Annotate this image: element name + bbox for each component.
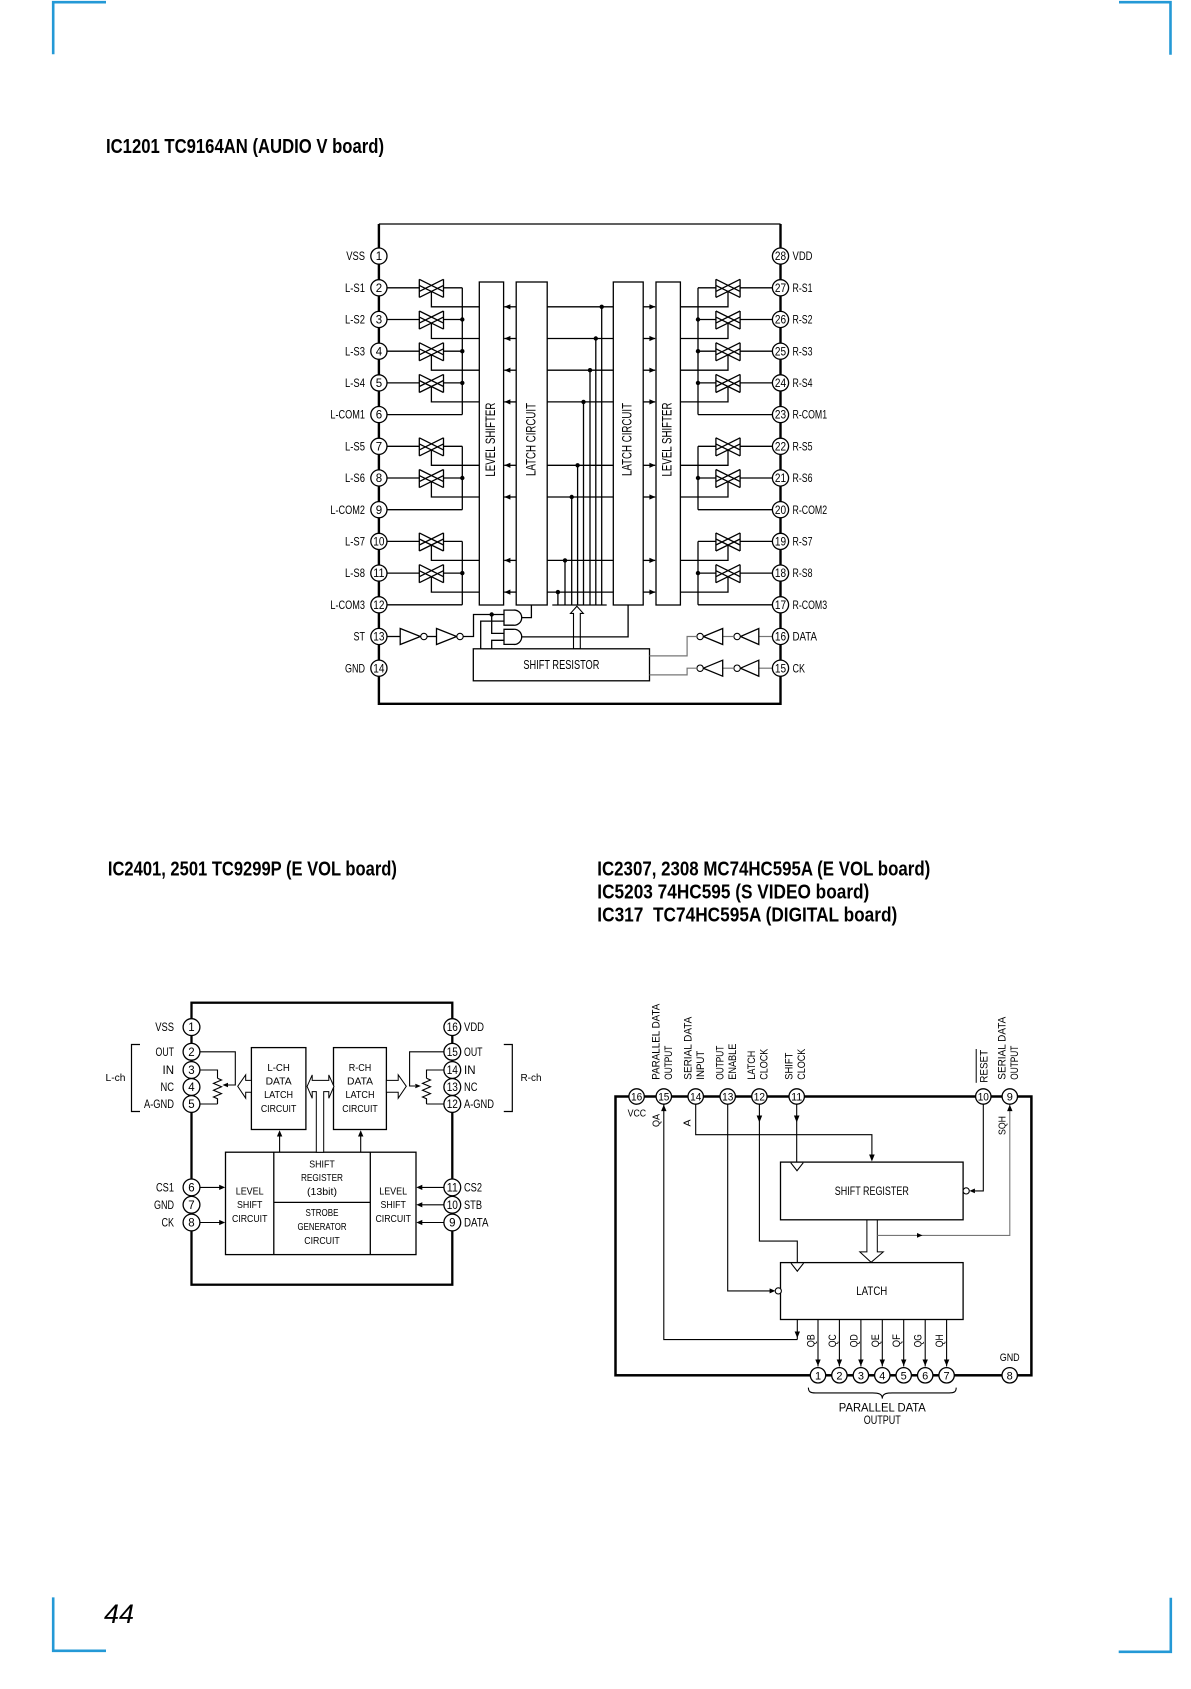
svg-text:NC: NC [161, 1080, 175, 1094]
svg-text:LATCH CIRCUIT: LATCH CIRCUIT [523, 403, 538, 476]
svg-text:ST: ST [354, 630, 366, 644]
inverter B [703, 629, 722, 645]
svg-text:GENERATOR: GENERATOR [298, 1221, 347, 1233]
wire switch L-S2 to common [444, 319, 463, 321]
arrow shift register to latch bus [571, 606, 584, 649]
wire bus vertical L-S8 [557, 592, 559, 605]
pin 7 L-S5 [345, 438, 387, 454]
svg-text:QH: QH [934, 1334, 946, 1347]
pin 16 VDD IC2401 [444, 1019, 484, 1036]
svg-text:R-COM2: R-COM2 [793, 503, 828, 517]
wire switch R-S3 to common [698, 350, 716, 352]
svg-text:8: 8 [1007, 1370, 1013, 1382]
svg-text:IC5203 74HC595 (S VIDEO board): IC5203 74HC595 (S VIDEO board) [597, 882, 869, 904]
svg-text:12: 12 [373, 600, 384, 612]
analog switch L-S1 [419, 279, 443, 297]
analog switch R-S6 [716, 470, 740, 488]
svg-text:15: 15 [447, 1047, 458, 1059]
wire bus vertical L-S3 [589, 370, 591, 605]
svg-text:19: 19 [775, 537, 786, 549]
svg-text:LATCH: LATCH [746, 1051, 758, 1080]
svg-text:LATCH CIRCUIT: LATCH CIRCUIT [620, 403, 635, 476]
wire QF output [903, 1320, 905, 1367]
L-CH data latch circuit box [251, 1048, 306, 1130]
inverter ST 1 [400, 629, 420, 645]
svg-text:R-S6: R-S6 [793, 471, 813, 485]
svg-text:6: 6 [188, 1183, 194, 1195]
junction dot ST branch [490, 612, 494, 616]
wire latch to level-shifter left row L-S5 [504, 464, 516, 466]
svg-text:R-COM1: R-COM1 [793, 408, 828, 422]
wiper arrow right pot [415, 1084, 421, 1089]
svg-text:14: 14 [373, 663, 385, 675]
pin 8 CK IC2401 [162, 1214, 200, 1231]
svg-text:28: 28 [775, 251, 786, 263]
wire pin3 IN to pot [200, 1070, 218, 1078]
svg-text:R-S4: R-S4 [793, 376, 813, 390]
analog switch R-S5 [716, 438, 740, 456]
wire latch row mid L-S6/R-S6 [547, 496, 613, 498]
wire pin2 OUT to wiper [200, 1052, 235, 1085]
wire pin10 L-S7 to switch [387, 540, 419, 542]
svg-text:26: 26 [775, 315, 786, 327]
svg-text:GND: GND [345, 661, 365, 675]
svg-text:VDD: VDD [464, 1020, 484, 1034]
wire pin10 reset [973, 1104, 984, 1191]
pin 2 OUT IC2401 [156, 1043, 200, 1060]
svg-text:44: 44 [104, 1599, 134, 1629]
svg-text:5: 5 [901, 1370, 907, 1382]
wire switch L-S4 to common [444, 382, 463, 384]
svg-text:QC: QC [827, 1334, 839, 1347]
svg-text:25: 25 [775, 346, 786, 358]
brace parallel data output [808, 1388, 956, 1399]
inverter A [741, 629, 759, 645]
svg-text:4: 4 [188, 1082, 195, 1094]
shift register box 74HC595 [781, 1162, 964, 1220]
svg-text:QE: QE [870, 1334, 882, 1347]
analog switch R-S8 [716, 565, 740, 583]
pin 22 R-S5 [772, 438, 812, 454]
wire R-S2 gate control [680, 323, 728, 338]
pin 1 VSS [346, 248, 387, 264]
pin 26 R-S2 [772, 311, 812, 327]
svg-text:10: 10 [447, 1200, 458, 1212]
wire QA to pin15 [796, 1320, 798, 1340]
svg-text:IC317 TC74HC595A (DIGITAL boa: IC317 TC74HC595A (DIGITAL board) [597, 905, 897, 927]
svg-text:L-S7: L-S7 [345, 535, 365, 549]
svg-text:CIRCUIT: CIRCUIT [375, 1213, 411, 1225]
wire R-S7 gate control [680, 545, 728, 560]
wire R-COM3 net [698, 604, 773, 606]
pin 12 A-GND IC2401 [444, 1096, 494, 1113]
wire R-S1 gate control [680, 291, 728, 306]
wire pin15 OUT to wiper [410, 1052, 444, 1086]
wire latch row mid L-S8/R-S8 [547, 591, 613, 593]
pin 12 L-COM3 [330, 597, 387, 613]
svg-text:OUT: OUT [464, 1045, 483, 1059]
shift resistor box [473, 649, 649, 681]
svg-text:24: 24 [775, 378, 787, 390]
svg-text:QB: QB [806, 1334, 818, 1347]
pin 7 74HC595 [939, 1368, 954, 1383]
pin 27 R-S1 [772, 280, 812, 296]
wire shift register to R-CH latch [360, 1137, 362, 1153]
bubble latch OE [775, 1288, 781, 1294]
R-CH data latch circuit box [334, 1048, 387, 1130]
pin 4 L-S3 [345, 343, 387, 359]
junction dot bus L-S5 [575, 463, 579, 467]
wire pin10 STB to level shift [422, 1204, 444, 1206]
wire QE output [881, 1320, 883, 1367]
wire pin22 R-S5 to switch [740, 445, 772, 447]
junction dot bus L-S3 [588, 368, 592, 372]
wire QD output [860, 1320, 862, 1367]
svg-text:L-COM1: L-COM1 [330, 408, 365, 422]
wire L-S3 gate control [431, 355, 479, 370]
pin 3 L-S2 [345, 311, 387, 327]
svg-text:27: 27 [775, 283, 786, 295]
clock triangle shift register [791, 1163, 804, 1171]
IC2401 outline box [192, 1003, 453, 1285]
inverter B [703, 660, 722, 676]
wire shift-register output comb [552, 604, 606, 606]
wire latch to level-shifter left row L-S6 [504, 496, 516, 498]
wire pin21 R-S6 to switch [740, 477, 772, 479]
junction dot bus L-S2 [594, 336, 598, 340]
svg-text:A-GND: A-GND [144, 1097, 174, 1111]
svg-text:GND: GND [1000, 1352, 1020, 1364]
pin 9 DATA IC2401 [444, 1214, 489, 1231]
svg-text:14: 14 [690, 1092, 701, 1104]
svg-text:CLOCK: CLOCK [796, 1048, 808, 1080]
svg-text:INPUT: INPUT [695, 1050, 707, 1079]
wire pin24 R-S4 to switch [740, 382, 772, 384]
wire R-S8 gate control [680, 577, 728, 592]
svg-text:OUTPUT: OUTPUT [714, 1046, 726, 1080]
analog switch L-S3 [419, 343, 443, 361]
pin 10 L-S7 [345, 533, 387, 549]
svg-text:CK: CK [162, 1216, 175, 1230]
svg-text:15: 15 [775, 663, 786, 675]
wire pin4 L-S3 to switch [387, 350, 419, 352]
svg-text:LEVEL: LEVEL [379, 1185, 407, 1197]
svg-text:DATA: DATA [347, 1076, 373, 1088]
svg-text:VDD: VDD [793, 249, 813, 263]
analog switch R-S4 [716, 374, 740, 392]
wire latch to level-shifter left row L-S7 [504, 559, 516, 561]
latch circuit (right) box [613, 282, 643, 605]
svg-text:15: 15 [658, 1092, 669, 1104]
svg-text:R-COM3: R-COM3 [793, 598, 828, 612]
pin 15 74HC595 [656, 1089, 671, 1104]
wire L-S6 gate control [431, 482, 479, 497]
svg-text:LEVEL SHIFTER: LEVEL SHIFTER [483, 402, 498, 476]
svg-text:10: 10 [373, 537, 384, 549]
pin 12 74HC595 [752, 1089, 767, 1104]
wire R-S5 gate control [680, 450, 728, 465]
junction dot bus L-S8 [556, 590, 560, 594]
junction dot bus L-S7 [563, 558, 567, 562]
wire latch to level-shifter right row R-S1 [643, 306, 655, 308]
wire pin27 R-S1 to switch [740, 287, 772, 289]
wire between inverters (gray) [723, 636, 734, 638]
svg-text:11: 11 [447, 1183, 458, 1195]
wire L-S5 gate control [431, 450, 479, 465]
wire AND2 output to right latch [522, 605, 628, 637]
pin 3 IN IC2401 [163, 1062, 200, 1079]
wire pin6 CS1 to level shift [200, 1186, 220, 1188]
wire R-S4 gate control [680, 387, 728, 402]
svg-text:R-CH: R-CH [349, 1062, 372, 1074]
wire to shift resistor (gray) [650, 668, 697, 675]
svg-text:12: 12 [754, 1092, 765, 1104]
svg-text:CIRCUIT: CIRCUIT [342, 1103, 378, 1115]
svg-text:NC: NC [464, 1080, 478, 1094]
wire pin2 L-S1 to switch [387, 287, 419, 289]
wire switch R-S2 to common [698, 319, 716, 321]
pin 5 L-S4 [345, 375, 387, 391]
wire latch to level-shifter left row L-S8 [504, 591, 516, 593]
svg-text:23: 23 [775, 410, 786, 422]
svg-text:16: 16 [447, 1022, 458, 1034]
wire shift-resistor to AND1 [481, 621, 504, 649]
svg-text:9: 9 [1007, 1092, 1013, 1104]
svg-text:13: 13 [373, 632, 384, 644]
svg-text:CS1: CS1 [156, 1181, 174, 1195]
wire shift-resistor to AND2 [492, 640, 504, 649]
wire pin11 CS2 to level shift [422, 1186, 444, 1188]
svg-text:L-ch: L-ch [106, 1072, 126, 1084]
pin 6 CS1 IC2401 [156, 1179, 200, 1196]
svg-text:1: 1 [376, 251, 382, 263]
svg-text:L-COM2: L-COM2 [330, 503, 365, 517]
svg-text:3: 3 [188, 1065, 194, 1077]
svg-text:9: 9 [376, 505, 382, 517]
wire latch to level-shifter left row L-S3 [504, 369, 516, 371]
pin 18 R-S8 [772, 565, 812, 581]
svg-text:LEVEL: LEVEL [236, 1185, 264, 1197]
wire pin25 R-S3 to switch [740, 350, 772, 352]
svg-text:12: 12 [447, 1099, 458, 1111]
wire L-S1 gate control [431, 291, 479, 306]
wire R-S3 gate control [680, 355, 728, 370]
svg-text:7: 7 [944, 1370, 950, 1382]
svg-text:2: 2 [188, 1047, 194, 1059]
svg-text:17: 17 [775, 600, 786, 612]
pin 19 R-S7 [772, 533, 812, 549]
wire pin to inverter (gray) [759, 636, 773, 638]
svg-text:11: 11 [373, 568, 384, 580]
analog switch R-S2 [716, 311, 740, 329]
AND gate U2 [504, 629, 522, 644]
wire bus vertical L-S2 [595, 339, 597, 606]
latch box 74HC595 [781, 1263, 964, 1320]
wire latch to level-shifter right row R-S5 [643, 464, 655, 466]
wire switch L-S5 to common [444, 445, 463, 447]
svg-text:CIRCUIT: CIRCUIT [232, 1213, 268, 1225]
pin 4 NC IC2401 [161, 1079, 200, 1096]
svg-text:LATCH: LATCH [856, 1284, 887, 1298]
wire QC output [838, 1320, 840, 1367]
svg-text:L-S8: L-S8 [345, 566, 365, 580]
pin 5 A-GND IC2401 [144, 1096, 200, 1113]
svg-text:L-S6: L-S6 [345, 471, 365, 485]
wire R-COM1 net [698, 414, 773, 416]
svg-text:VCC: VCC [628, 1108, 647, 1120]
wire pin5 A-GND to pot [200, 1103, 218, 1105]
big arrow shift register to latch [860, 1220, 884, 1263]
analog switch L-S2 [419, 311, 443, 329]
wire latch to level-shifter right row R-S2 [643, 338, 655, 340]
svg-text:R-S8: R-S8 [793, 566, 813, 580]
pin 8 L-S6 [345, 470, 387, 486]
svg-text:(13bit): (13bit) [307, 1186, 337, 1198]
svg-text:L-S3: L-S3 [345, 344, 365, 358]
svg-text:6: 6 [922, 1370, 928, 1382]
wire L-S7 gate control [431, 545, 479, 560]
wire switch L-S1 to common [444, 287, 463, 289]
pin 17 R-COM3 [772, 597, 827, 613]
wire pin18 R-S8 to switch [740, 572, 772, 574]
svg-text:11: 11 [791, 1092, 802, 1104]
svg-text:4: 4 [376, 346, 383, 358]
pin 14 GND [345, 660, 387, 676]
wire latch row mid L-S7/R-S7 [547, 559, 613, 561]
wire latch to level-shifter left row L-S1 [504, 306, 516, 308]
level shifter (right) box [656, 282, 680, 605]
wire bus vertical L-S5 [577, 465, 579, 605]
wire latch row mid L-S5/R-S5 [547, 464, 613, 466]
double arrow shift register to latches [307, 1075, 334, 1152]
wire pin12 latch clock [759, 1104, 797, 1263]
svg-text:8: 8 [376, 473, 382, 485]
svg-text:20: 20 [775, 505, 786, 517]
pin 15 OUT IC2401 [444, 1043, 483, 1060]
wire switch L-S3 to common [444, 350, 463, 352]
pin 11 L-S8 [345, 565, 387, 581]
svg-text:L-CH: L-CH [267, 1062, 290, 1074]
svg-text:14: 14 [447, 1065, 459, 1077]
wire ST branch to AND2 [492, 615, 504, 634]
svg-text:IN: IN [464, 1063, 476, 1077]
wire switch R-S1 to common [698, 287, 716, 289]
wire latch to level-shifter right row R-S7 [643, 559, 655, 561]
svg-text:LEVEL SHIFTER: LEVEL SHIFTER [660, 402, 675, 476]
analog switch R-S1 [716, 279, 740, 297]
svg-text:IC2401, 2501 TC9299P (E VOL bo: IC2401, 2501 TC9299P (E VOL board) [108, 859, 397, 881]
svg-text:3: 3 [376, 315, 382, 327]
wire switch R-S4 to common [698, 382, 716, 384]
svg-text:SERIAL DATA: SERIAL DATA [682, 1016, 694, 1080]
pin 13 NC IC2401 [444, 1079, 478, 1096]
svg-text:REGISTER: REGISTER [301, 1172, 343, 1184]
wire R-COM2 net [698, 509, 773, 511]
svg-text:5: 5 [376, 378, 382, 390]
svg-text:2: 2 [836, 1370, 842, 1382]
pin 14 74HC595 [688, 1089, 703, 1104]
pin 8 74HC595 [1002, 1368, 1017, 1383]
wire switch L-S6 to common [444, 477, 463, 479]
bracket R-ch [504, 1045, 513, 1112]
svg-text:SHIFT: SHIFT [237, 1199, 263, 1211]
analog switch R-S3 [716, 343, 740, 361]
pin 24 R-S4 [772, 375, 812, 391]
wire bus vertical L-S1 [601, 307, 603, 605]
pin 13 ST [354, 628, 388, 644]
svg-text:10: 10 [978, 1092, 989, 1104]
junction dot bus L-S1 [600, 305, 604, 309]
latch circuit (left) box [516, 282, 547, 605]
svg-text:QG: QG [913, 1334, 925, 1347]
svg-text:CLOCK: CLOCK [759, 1048, 771, 1080]
pin 15 CK [772, 660, 805, 676]
wire pin13 ST to inverter [387, 636, 400, 638]
svg-text:DATA: DATA [266, 1076, 292, 1088]
svg-text:R-S3: R-S3 [793, 344, 813, 358]
svg-text:4: 4 [879, 1370, 885, 1382]
svg-text:R-S2: R-S2 [793, 313, 813, 327]
junction dot bus L-S6 [570, 495, 574, 499]
wire between inverters (gray) [723, 667, 734, 669]
svg-text:OUT: OUT [156, 1045, 175, 1059]
inverter A [741, 660, 759, 676]
wire switch R-S8 to common [698, 572, 716, 574]
pin 21 R-S6 [772, 470, 812, 486]
svg-text:13: 13 [447, 1082, 458, 1094]
analog switch L-S7 [419, 533, 443, 551]
wire R-S6 gate control [680, 482, 728, 497]
svg-text:R-S5: R-S5 [793, 439, 813, 453]
svg-text:OUTPUT: OUTPUT [864, 1415, 901, 1427]
svg-text:7: 7 [376, 441, 382, 453]
wire pin8 CK to level shift [200, 1222, 220, 1224]
svg-text:SHIFT: SHIFT [309, 1158, 335, 1170]
level shift / shift register / strobe generator box [226, 1152, 417, 1254]
svg-text:CK: CK [793, 661, 806, 675]
svg-text:PARALLEL DATA: PARALLEL DATA [839, 1403, 926, 1415]
wire pin19 R-S7 to switch [740, 540, 772, 542]
wire switch R-S7 to common [698, 540, 716, 542]
wire pin to inverter (gray) [759, 667, 773, 669]
wire QG output [924, 1320, 926, 1367]
wire pin14 IN to pot [427, 1070, 444, 1078]
bubble shift register reset [963, 1188, 969, 1194]
svg-text:1: 1 [815, 1370, 821, 1382]
pin 5 74HC595 [896, 1368, 911, 1383]
wire SQH serial data output (gray) [877, 1104, 1010, 1235]
pin 9 74HC595 [1002, 1089, 1017, 1104]
wire pin3 L-S2 to switch [387, 319, 419, 321]
pin 3 74HC595 [853, 1368, 868, 1383]
svg-text:7: 7 [188, 1200, 194, 1212]
svg-text:PARALLEL DATA: PARALLEL DATA [651, 1003, 663, 1080]
wire L-S8 gate control [431, 577, 479, 592]
wire pin26 R-S2 to switch [740, 319, 772, 321]
wire latch to level-shifter left row L-S2 [504, 338, 516, 340]
pin 25 R-S3 [772, 343, 812, 359]
svg-text:RESET: RESET [979, 1050, 991, 1083]
svg-text:VSS: VSS [155, 1020, 174, 1034]
wire to shift resistor (gray) [650, 637, 697, 656]
svg-text:9: 9 [449, 1218, 455, 1230]
wire latch row mid L-S2/R-S2 [547, 338, 613, 340]
svg-text:13: 13 [722, 1092, 733, 1104]
pin 6 L-COM1 [330, 407, 387, 423]
wire inverter1 to inverter2 [427, 636, 436, 638]
svg-text:SHIFT RESISTOR: SHIFT RESISTOR [523, 658, 599, 672]
wire L-COM2 net [387, 509, 462, 511]
